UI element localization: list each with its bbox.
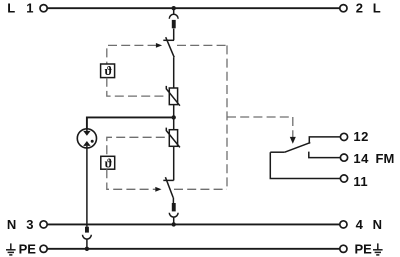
GDT gas dot bbox=[91, 140, 94, 143]
terminal 14 bbox=[340, 154, 347, 161]
arrow at contact bbox=[290, 137, 296, 144]
wire RV1 to node bbox=[173, 105, 175, 118]
signal contact K1 common lead bbox=[270, 151, 284, 153]
wire GDT down across N to F3 bbox=[86, 148, 88, 227]
dashed linkage S1 right and down to S2 bbox=[177, 44, 227, 46]
ground symbol left bbox=[6, 243, 16, 255]
dashed branch to signal contact bbox=[227, 116, 293, 118]
wire mid horizontal to GDT branch bbox=[87, 117, 174, 128]
node junction on L bbox=[172, 6, 176, 10]
wire RV2 to S2 bbox=[173, 146, 175, 180]
switch S2 blade bbox=[165, 177, 173, 197]
terminal PE right bbox=[340, 245, 347, 252]
svg-text:L: L bbox=[373, 1, 381, 16]
wire S1 to RV1 bbox=[173, 57, 175, 88]
signal contact K1 common riser bbox=[270, 152, 340, 178]
terminal PE left bbox=[40, 245, 47, 252]
thermal fuse F1 bar bbox=[172, 20, 176, 28]
terminal 4 (N right) bbox=[340, 221, 347, 228]
arrow at S2 bbox=[155, 187, 161, 192]
svg-text:N: N bbox=[373, 217, 382, 232]
thermal fuse F3 bar bbox=[85, 227, 89, 233]
signal contact K1 blade bbox=[285, 143, 311, 153]
svg-text:ϑ: ϑ bbox=[105, 64, 113, 78]
temperature sensor theta1 box bbox=[101, 64, 115, 78]
varistor RV1 body bbox=[169, 88, 177, 105]
disconnect plug F3 (cup) bbox=[83, 235, 92, 239]
svg-text:12: 12 bbox=[353, 129, 368, 144]
dashed linkage theta1 to RV1 bbox=[107, 78, 165, 96]
svg-text:4: 4 bbox=[356, 217, 364, 232]
terminal 11 bbox=[340, 175, 347, 182]
svg-text:11: 11 bbox=[353, 174, 368, 189]
wire S2 to F2 bbox=[172, 198, 174, 203]
contact 12 fixed lead bbox=[309, 137, 340, 144]
varistor RV1 diagonal bbox=[166, 86, 180, 106]
svg-text:FM: FM bbox=[376, 151, 395, 166]
GDT top electrode bbox=[86, 129, 88, 132]
wire PE line bbox=[48, 248, 340, 250]
node junction on N bbox=[172, 222, 176, 226]
dashed linkage theta2 to S2 bbox=[107, 169, 156, 189]
node junction on PE bbox=[85, 247, 89, 251]
switch S1 blade bbox=[166, 37, 175, 57]
wire node to RV2 bbox=[173, 117, 175, 129]
wire N line bbox=[48, 223, 340, 225]
disconnect plug F2 (cup) bbox=[169, 213, 178, 217]
switch S2 hinge tick bbox=[163, 179, 173, 181]
terminal 3 (N left) bbox=[40, 221, 47, 228]
temperature sensor theta2 box bbox=[101, 156, 115, 169]
svg-text:3: 3 bbox=[26, 217, 33, 232]
svg-text:PE: PE bbox=[19, 241, 37, 256]
dashed linkage upper to S1 bbox=[107, 45, 157, 64]
svg-text:2: 2 bbox=[356, 1, 363, 16]
svg-text:PE: PE bbox=[355, 241, 373, 256]
svg-text:14: 14 bbox=[353, 151, 369, 166]
disconnect plug F1 (cup) bbox=[173, 8, 175, 14]
terminal 2 (L right) bbox=[340, 5, 347, 12]
dashed linkage RV2 to theta2 bbox=[107, 137, 165, 156]
svg-text:N: N bbox=[7, 217, 16, 232]
GDT bottom electrode bbox=[83, 141, 90, 146]
arrow at S1 bbox=[156, 43, 162, 48]
svg-text:1: 1 bbox=[26, 1, 33, 16]
varistor RV2 diagonal bbox=[166, 128, 180, 148]
terminal 12 bbox=[340, 133, 347, 140]
thermal fuse F2 bar bbox=[172, 203, 176, 211]
node junction mid bbox=[172, 115, 176, 119]
ground symbol right bbox=[373, 243, 383, 255]
contact 14 fixed lead bbox=[309, 152, 341, 158]
terminal 1 (L left) bbox=[40, 5, 47, 12]
wire F1 to S1 bbox=[173, 29, 175, 41]
switch S1 hinge tick bbox=[163, 39, 174, 41]
svg-text:L: L bbox=[7, 1, 15, 16]
varistor RV2 body bbox=[169, 130, 177, 147]
gas discharge tube GDT circle bbox=[77, 129, 96, 148]
svg-text:ϑ: ϑ bbox=[105, 156, 113, 170]
wire L line bbox=[48, 7, 340, 9]
